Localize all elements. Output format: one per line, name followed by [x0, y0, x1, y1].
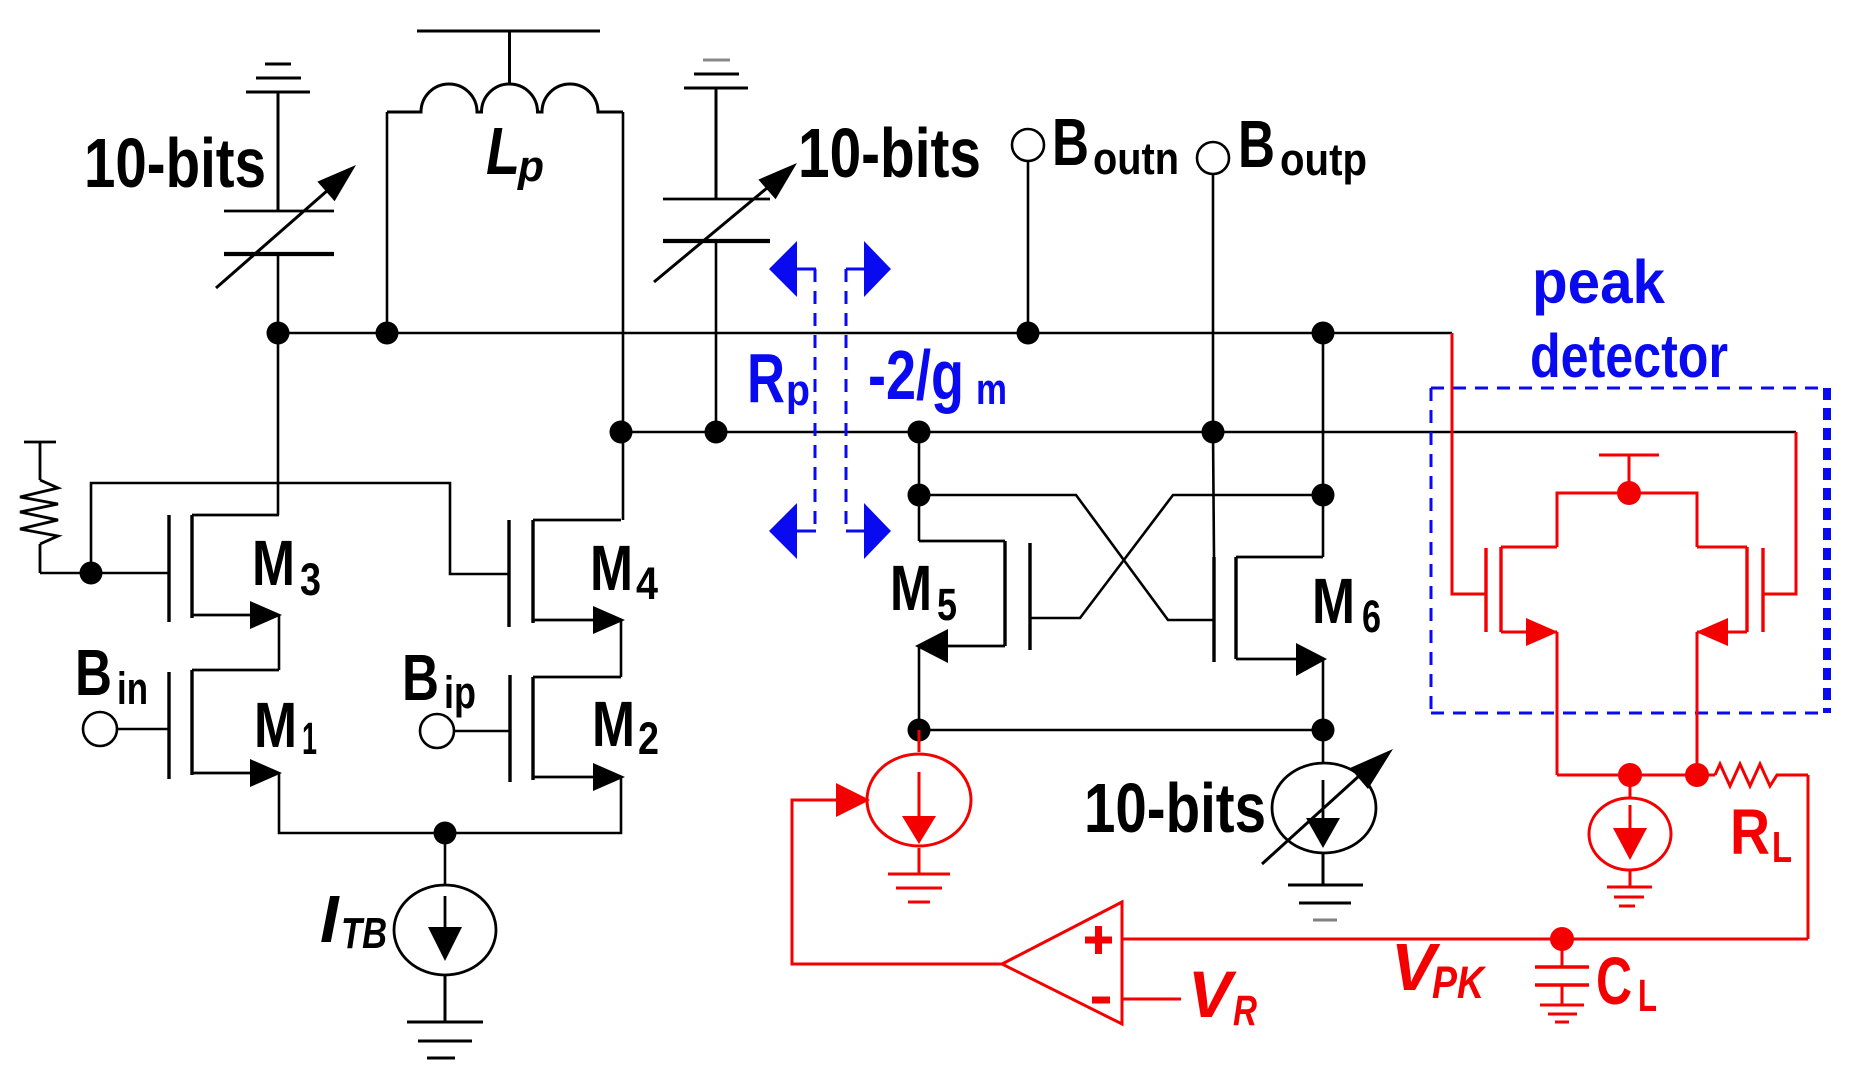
- label M1: [254, 689, 317, 764]
- wire inductor left leg: [386, 112, 389, 333]
- wire Boutp stem: [1212, 174, 1215, 432]
- current source red small: [1589, 775, 1671, 870]
- wire rail1: [278, 332, 1452, 335]
- label Rp: [747, 339, 810, 417]
- svg-text:peak: peak: [1532, 248, 1665, 316]
- svg-text:M: M: [890, 552, 932, 624]
- wire tail to ITB: [444, 833, 447, 885]
- node M5 drain: [908, 484, 931, 507]
- label Boutp: [1238, 107, 1367, 185]
- blue arrow top-left: [797, 268, 816, 271]
- ground red under CS: [888, 848, 950, 902]
- inductor Lp: [387, 84, 623, 112]
- label -2/gm: [868, 336, 1007, 414]
- wire varactor column down to M3 drain: [277, 333, 280, 515]
- opamp plus: [1085, 926, 1112, 954]
- ground (top, mid varactor): [0, 0, 2, 2]
- label ITB: [320, 882, 387, 958]
- svg-text:R: R: [747, 339, 785, 417]
- label Boutn: [1052, 105, 1179, 184]
- capacitor CL: [1535, 939, 1589, 1005]
- ground under variable CS: [1288, 854, 1363, 903]
- svg-text:-2/g: -2/g: [868, 336, 964, 414]
- wire M6 drain column: [1322, 333, 1325, 557]
- varactor mid arrow: [654, 178, 779, 282]
- node bottom rail right: [1685, 763, 1709, 787]
- node rail2 dots: [610, 421, 633, 444]
- label VR: [1188, 957, 1257, 1035]
- node tail: [434, 822, 457, 845]
- wire M5 source down: [918, 646, 921, 730]
- resistor (left bias): [20, 442, 58, 573]
- svg-text:C: C: [1596, 944, 1632, 1019]
- svg-text:outn: outn: [1093, 133, 1179, 184]
- wire RL down to VPK line: [1807, 775, 1810, 939]
- wire opamp plus input / VPK line: [1122, 938, 1808, 941]
- wire M5 drain column: [918, 432, 921, 541]
- wire cross-couple M5 drain to M6 gate: [919, 495, 1214, 620]
- svg-text:V: V: [1188, 957, 1237, 1031]
- blue dashed Rp line: [815, 269, 846, 531]
- transistor M3: [169, 515, 279, 622]
- node gate bias: [80, 562, 103, 585]
- opamp minus: [1092, 997, 1110, 1004]
- svg-text:L: L: [1772, 823, 1792, 872]
- wire Bip to M2 gate: [454, 730, 510, 733]
- node tail M5: [908, 719, 931, 742]
- svg-text:TB: TB: [341, 909, 387, 958]
- wire rail1 into peak detector (red): [1452, 333, 1486, 594]
- svg-text:I: I: [320, 882, 340, 957]
- transistor peak-detector right (red): [1697, 547, 1763, 632]
- svg-text:5: 5: [937, 579, 957, 630]
- node VPK: [1550, 927, 1574, 951]
- svg-text:6: 6: [1362, 591, 1381, 642]
- node M6 drain: [1312, 484, 1335, 507]
- wire rail2 into peak detector (red): [1763, 432, 1796, 594]
- blue arrow bottom-right: [846, 530, 865, 533]
- wire bias node to M3 gate: [91, 572, 169, 575]
- wire M6 source down: [1322, 659, 1325, 730]
- capacitor varactor mid: [663, 199, 770, 432]
- label M4: [590, 532, 658, 609]
- transistor M6: [1214, 557, 1323, 662]
- transistor M2: [510, 675, 621, 782]
- svg-text:4: 4: [636, 558, 658, 609]
- svg-text:10-bits: 10-bits: [1084, 769, 1266, 847]
- svg-text:PK: PK: [1432, 957, 1487, 1008]
- node rail1 dots: [267, 322, 290, 345]
- label M5: [890, 552, 957, 630]
- wire Bin to M1 gate: [117, 728, 169, 731]
- terminal Bip: [420, 714, 454, 748]
- node bottom rail left: [1618, 763, 1642, 787]
- blue arrow top-right: [846, 268, 865, 271]
- feedback arrowhead: [836, 783, 870, 817]
- supply bar peak detector: [1599, 455, 1659, 493]
- varactor left arrow: [216, 183, 336, 288]
- svg-text:M: M: [592, 688, 635, 760]
- svg-text:B: B: [1052, 105, 1089, 180]
- peak detector box: [1431, 388, 1827, 713]
- label RL: [1730, 796, 1792, 872]
- wire bias node up and across to M4 gate: [91, 483, 509, 574]
- resistor RL: [1715, 764, 1808, 786]
- svg-text:B: B: [402, 641, 439, 714]
- svg-text:2: 2: [638, 713, 659, 764]
- terminal Boutp: [1197, 142, 1229, 174]
- transistor M5: [919, 541, 1030, 650]
- supply bar top: [417, 31, 600, 84]
- terminal Bin: [83, 712, 117, 746]
- wire peak det drains: [1557, 493, 1697, 547]
- label M6: [1312, 565, 1381, 642]
- terminal Boutn: [1012, 129, 1044, 161]
- svg-text:3: 3: [300, 554, 321, 605]
- current source red controlled: [867, 730, 971, 846]
- svg-text:in: in: [117, 663, 148, 714]
- svg-text:p: p: [517, 142, 544, 191]
- svg-text:L: L: [1638, 970, 1657, 1021]
- capacitor varactor left: [224, 211, 334, 333]
- wire M3 source to M1 drain: [278, 615, 281, 670]
- svg-text:L: L: [486, 114, 520, 189]
- wire B_outp column to M6 gate: [1213, 432, 1214, 557]
- ground under ITB: [407, 976, 483, 1058]
- wire cross-couple M6 drain to M5 gate: [1030, 495, 1323, 618]
- wire peak det bottom rail: [1557, 774, 1715, 777]
- svg-text:10-bits: 10-bits: [84, 124, 266, 202]
- wire M1 source to tail: [279, 773, 445, 833]
- label M2: [592, 688, 659, 764]
- ground under small red CS: [1607, 870, 1652, 906]
- svg-text:M: M: [252, 527, 295, 599]
- current source 10-bits variable: [1322, 730, 1325, 762]
- blue arrow bottom-left: [797, 530, 816, 533]
- svg-text:R: R: [1233, 987, 1257, 1035]
- wire resistor to gate node: [40, 572, 91, 575]
- wire rail2: [621, 431, 1796, 434]
- wire tail rail M5/M6: [919, 729, 1323, 732]
- wire M4 source to M2 drain: [620, 620, 623, 677]
- wire M2 source to tail: [445, 777, 621, 833]
- node tail M6: [1312, 719, 1335, 742]
- ground (top, left varactor): [246, 64, 310, 211]
- opamp triangle: [1002, 902, 1122, 1024]
- svg-text:R: R: [1730, 796, 1770, 868]
- wire peak det sources down: [1556, 632, 1559, 775]
- wire opamp minus input: [1122, 998, 1181, 1001]
- label Bip: [402, 641, 476, 718]
- wire Boutn stem: [1027, 161, 1030, 333]
- svg-text:M: M: [1312, 565, 1355, 637]
- ground under CL: [1540, 1005, 1584, 1022]
- node peak det supply: [1617, 481, 1641, 505]
- svg-text:detector: detector: [1530, 322, 1728, 390]
- variable arrow on CS: [1262, 766, 1370, 864]
- transistor M1: [169, 670, 279, 779]
- label VPK: [1391, 930, 1487, 1008]
- svg-text:B: B: [1238, 107, 1275, 182]
- svg-text:10-bits: 10-bits: [798, 114, 981, 192]
- svg-text:outp: outp: [1280, 134, 1367, 185]
- svg-text:M: M: [254, 689, 297, 761]
- label CL: [1596, 944, 1657, 1021]
- svg-text:M: M: [590, 532, 633, 604]
- label M3: [252, 527, 321, 605]
- current source ITB: [394, 885, 496, 975]
- svg-text:B: B: [75, 636, 112, 709]
- label Lp: [486, 114, 544, 191]
- svg-text:p: p: [786, 366, 810, 415]
- wire inductor right leg down to M4 drain: [622, 112, 625, 520]
- opamp feedback wire: [792, 800, 1002, 964]
- label Bin: [75, 636, 148, 714]
- svg-text:m: m: [976, 365, 1007, 414]
- svg-text:1: 1: [302, 713, 317, 764]
- transistor peak-detector left (red): [1486, 547, 1557, 632]
- transistor M4: [509, 520, 621, 627]
- svg-text:ip: ip: [444, 667, 476, 718]
